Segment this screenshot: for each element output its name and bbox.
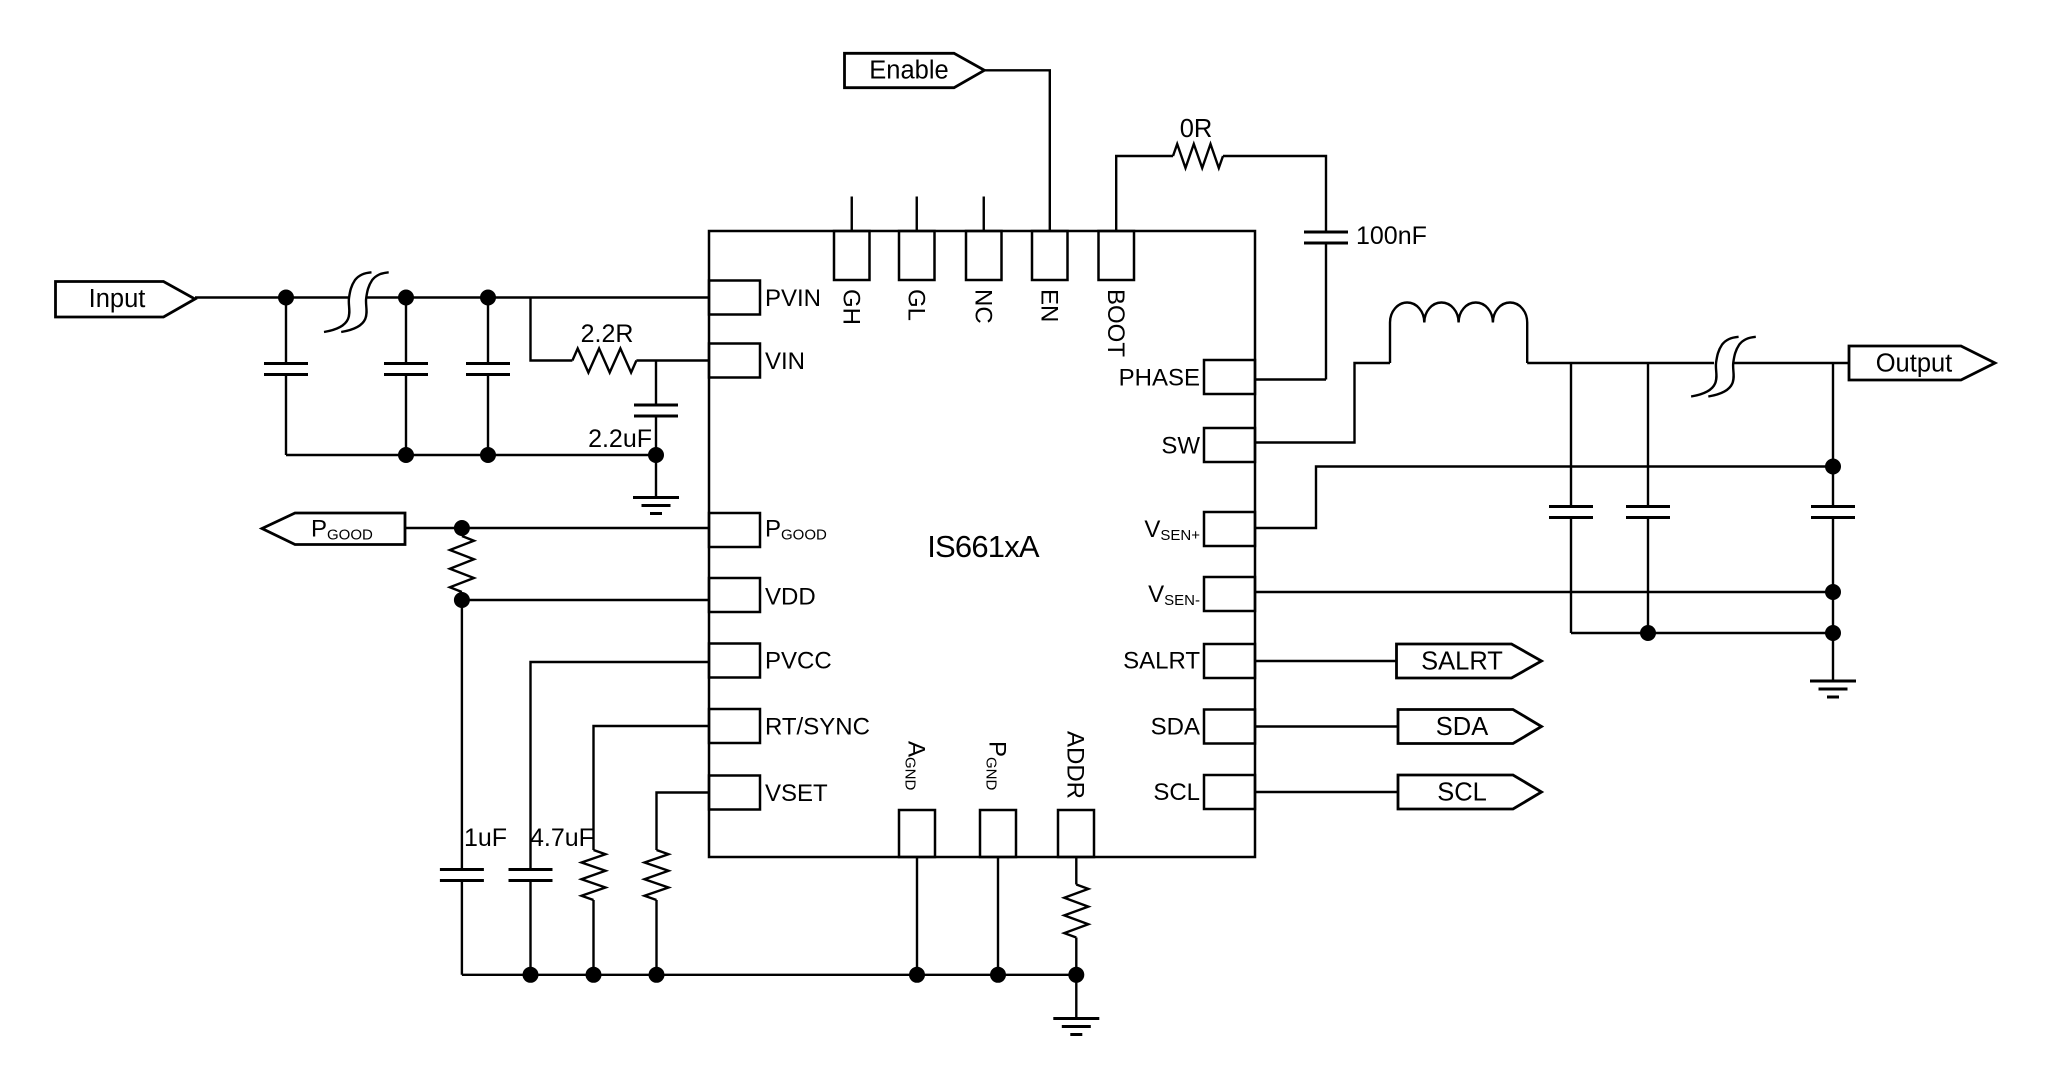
- pin GH (top): [834, 231, 870, 280]
- pin PGND (bottom): [980, 810, 1016, 857]
- pin PHASE (right): [1204, 360, 1255, 394]
- resistor VSET: [645, 850, 669, 900]
- pin ADDR (bottom): [1058, 810, 1094, 857]
- svg-text:PHASE: PHASE: [1119, 365, 1200, 392]
- svg-text:100nF: 100nF: [1356, 222, 1427, 250]
- wire: AGND stub: [916, 857, 918, 975]
- svg-text:VSET: VSET: [765, 780, 828, 807]
- capacitor 1uF: [461, 600, 463, 868]
- node: input cap 3 junction: [480, 290, 496, 306]
- wire: SCL pin to flag: [1255, 791, 1398, 793]
- svg-text:SCL: SCL: [1153, 779, 1200, 806]
- svg-text:SCL: SCL: [1437, 779, 1487, 807]
- resistor 0R: [1173, 144, 1223, 168]
- pin SDA (right): [1204, 710, 1255, 744]
- pin GL (top): [899, 231, 935, 280]
- svg-text:SALRT: SALRT: [1421, 648, 1503, 676]
- wire: PHASE pin: [1255, 378, 1326, 380]
- wire: GH stub above IC: [851, 197, 853, 232]
- wire: output capacitor ground bus: [1571, 632, 1833, 634]
- connector flag PGOOD (points left): [262, 513, 405, 545]
- svg-text:Input: Input: [89, 285, 146, 313]
- capacitor C_out1: [1570, 363, 1572, 505]
- node: ground bus junction x=656.5: [649, 967, 665, 983]
- svg-text:ADDR: ADDR: [1062, 731, 1089, 799]
- pin SW (right): [1204, 428, 1255, 462]
- svg-text:VIN: VIN: [765, 348, 805, 375]
- svg-text:IS661xA: IS661xA: [927, 529, 1040, 564]
- resistor ADDR: [1075, 857, 1077, 885]
- pin VSET (left): [709, 776, 760, 810]
- pin VDD (left): [709, 578, 760, 612]
- capacitor C_in1: [285, 298, 287, 363]
- node: PGOOD pull-up top: [454, 520, 470, 536]
- resistor PGOOD pull-up: [461, 528, 463, 536]
- node: ground bus junction x=593.5: [586, 967, 602, 983]
- svg-text:PVIN: PVIN: [765, 285, 821, 312]
- node: bus junction 2.2uF: [648, 447, 664, 463]
- capacitor C_out3 (ground tap): [1832, 363, 1834, 505]
- node: ground bus junction x=530.5: [523, 967, 539, 983]
- svg-text:2.2uF: 2.2uF: [588, 425, 652, 453]
- wire: BOOT stub to 0R: [1116, 156, 1173, 231]
- svg-text:SDA: SDA: [1151, 714, 1200, 741]
- wire: input capacitor ground bus: [286, 454, 656, 456]
- svg-text:1uF: 1uF: [464, 824, 507, 852]
- capacitor C_in2: [405, 298, 407, 363]
- pin VSEN- (right): [1204, 577, 1255, 611]
- wire: VSET pin branch: [657, 793, 710, 851]
- node: output bus / ground junction: [1825, 625, 1841, 641]
- wire: break symbol to PVIN pin: [367, 296, 709, 298]
- svg-text:4.7uF: 4.7uF: [530, 824, 594, 852]
- pin NC (top): [966, 231, 1002, 280]
- svg-text:SDA: SDA: [1436, 713, 1488, 741]
- wire: break symbol to Output flag: [1734, 362, 1849, 364]
- pin SCL (right): [1204, 775, 1255, 809]
- resistor RT: [582, 850, 606, 900]
- node: bus junction C_in2: [398, 447, 414, 463]
- capacitor 4.7uF: [509, 868, 553, 871]
- wire: Input to break symbol: [195, 296, 348, 298]
- wire: 0R to 100nF: [1223, 156, 1326, 231]
- connector flag SDA: [1398, 710, 1542, 744]
- pin PVCC (left): [709, 644, 760, 678]
- node: ground bus junction x=998: [990, 967, 1006, 983]
- wire: VSEN- sense net: [1255, 591, 1833, 593]
- wire: inductor to break symbol: [1527, 362, 1714, 364]
- ground (ADDR / bus): [1075, 975, 1077, 1019]
- wire: RT/SYNC pin branch: [594, 726, 710, 850]
- node: bus junction C_in3: [480, 447, 496, 463]
- resistor 2.2R: [572, 349, 636, 373]
- pin PGOOD (left): [709, 513, 760, 547]
- pin RT/SYNC (left): [709, 709, 760, 743]
- pin PVIN (left): [709, 281, 760, 315]
- svg-text:SW: SW: [1161, 433, 1200, 460]
- pin VIN (left): [709, 344, 760, 378]
- wire: SALRT pin to flag: [1255, 660, 1397, 662]
- svg-text:Output: Output: [1876, 350, 1953, 378]
- svg-text:GH: GH: [837, 289, 864, 325]
- ground (2.2uF): [655, 455, 657, 498]
- wire: 100nF to PHASE wire: [1325, 245, 1327, 380]
- pin VSEN+ (right): [1204, 512, 1255, 546]
- pin SALRT (right): [1204, 644, 1255, 678]
- node: C_out2 bus junction: [1640, 625, 1656, 641]
- node: input cap 1 junction: [278, 290, 294, 306]
- op-amp-style IC U1 IS661xA body: [709, 231, 1255, 857]
- node: ground bus junction x=1076.3: [1068, 967, 1084, 983]
- pin BOOT (top): [1099, 231, 1135, 280]
- svg-text:EN: EN: [1035, 289, 1062, 322]
- break symbol (input rail): [324, 272, 372, 332]
- wire: 2.2R to VIN pin: [636, 359, 709, 361]
- wire: VDD pin: [462, 599, 709, 601]
- node: VDD junction: [454, 592, 470, 608]
- svg-text:BOOT: BOOT: [1102, 289, 1129, 357]
- svg-text:GL: GL: [902, 289, 929, 321]
- wire: PGOOD flag to PGOOD pin: [405, 527, 709, 529]
- wire: GL stub above IC: [916, 197, 918, 232]
- connector flag Enable: [845, 53, 985, 87]
- ground (output): [1832, 633, 1834, 681]
- capacitor 2.2uF: [655, 361, 657, 404]
- wire: branch down to 2.2R: [531, 298, 573, 361]
- inductor L1: [1390, 302, 1527, 363]
- capacitor C_out2: [1647, 363, 1649, 505]
- wire: PGND stub: [997, 857, 999, 975]
- wire: Enable to EN pin: [984, 70, 1049, 231]
- svg-text:VDD: VDD: [765, 584, 816, 611]
- node: ground bus junction x=917: [909, 967, 925, 983]
- wire: bottom ground bus: [462, 974, 1076, 976]
- svg-text:SALRT: SALRT: [1123, 648, 1200, 675]
- svg-text:Enable: Enable: [869, 57, 948, 85]
- wire: SDA pin to flag: [1255, 725, 1398, 727]
- wire: SW pin to inductor: [1255, 363, 1390, 443]
- node: input cap 2 junction: [398, 290, 414, 306]
- wire: NC stub above IC: [983, 197, 985, 232]
- svg-text:PVCC: PVCC: [765, 648, 832, 675]
- capacitor 100nF: [1304, 231, 1348, 234]
- svg-text:2.2R: 2.2R: [581, 320, 634, 348]
- break symbol (output rail): [1691, 337, 1739, 397]
- svg-text:0R: 0R: [1180, 115, 1213, 143]
- wire: PVCC pin branch: [531, 662, 710, 868]
- capacitor C_in3: [487, 298, 489, 363]
- pin AGND (bottom): [899, 810, 935, 857]
- node: VSEN- sense junction: [1825, 584, 1841, 600]
- svg-text:RT/SYNC: RT/SYNC: [765, 714, 870, 741]
- connector flag SCL: [1398, 775, 1542, 809]
- node: VSEN+ sense junction: [1825, 459, 1841, 475]
- svg-text:NC: NC: [969, 289, 996, 324]
- connector flag Input: [56, 282, 196, 318]
- pin EN (top): [1032, 231, 1068, 280]
- connector flag SALRT: [1397, 644, 1542, 678]
- connector flag Output: [1849, 346, 1995, 380]
- wire: VSEN+ sense net: [1255, 467, 1833, 529]
